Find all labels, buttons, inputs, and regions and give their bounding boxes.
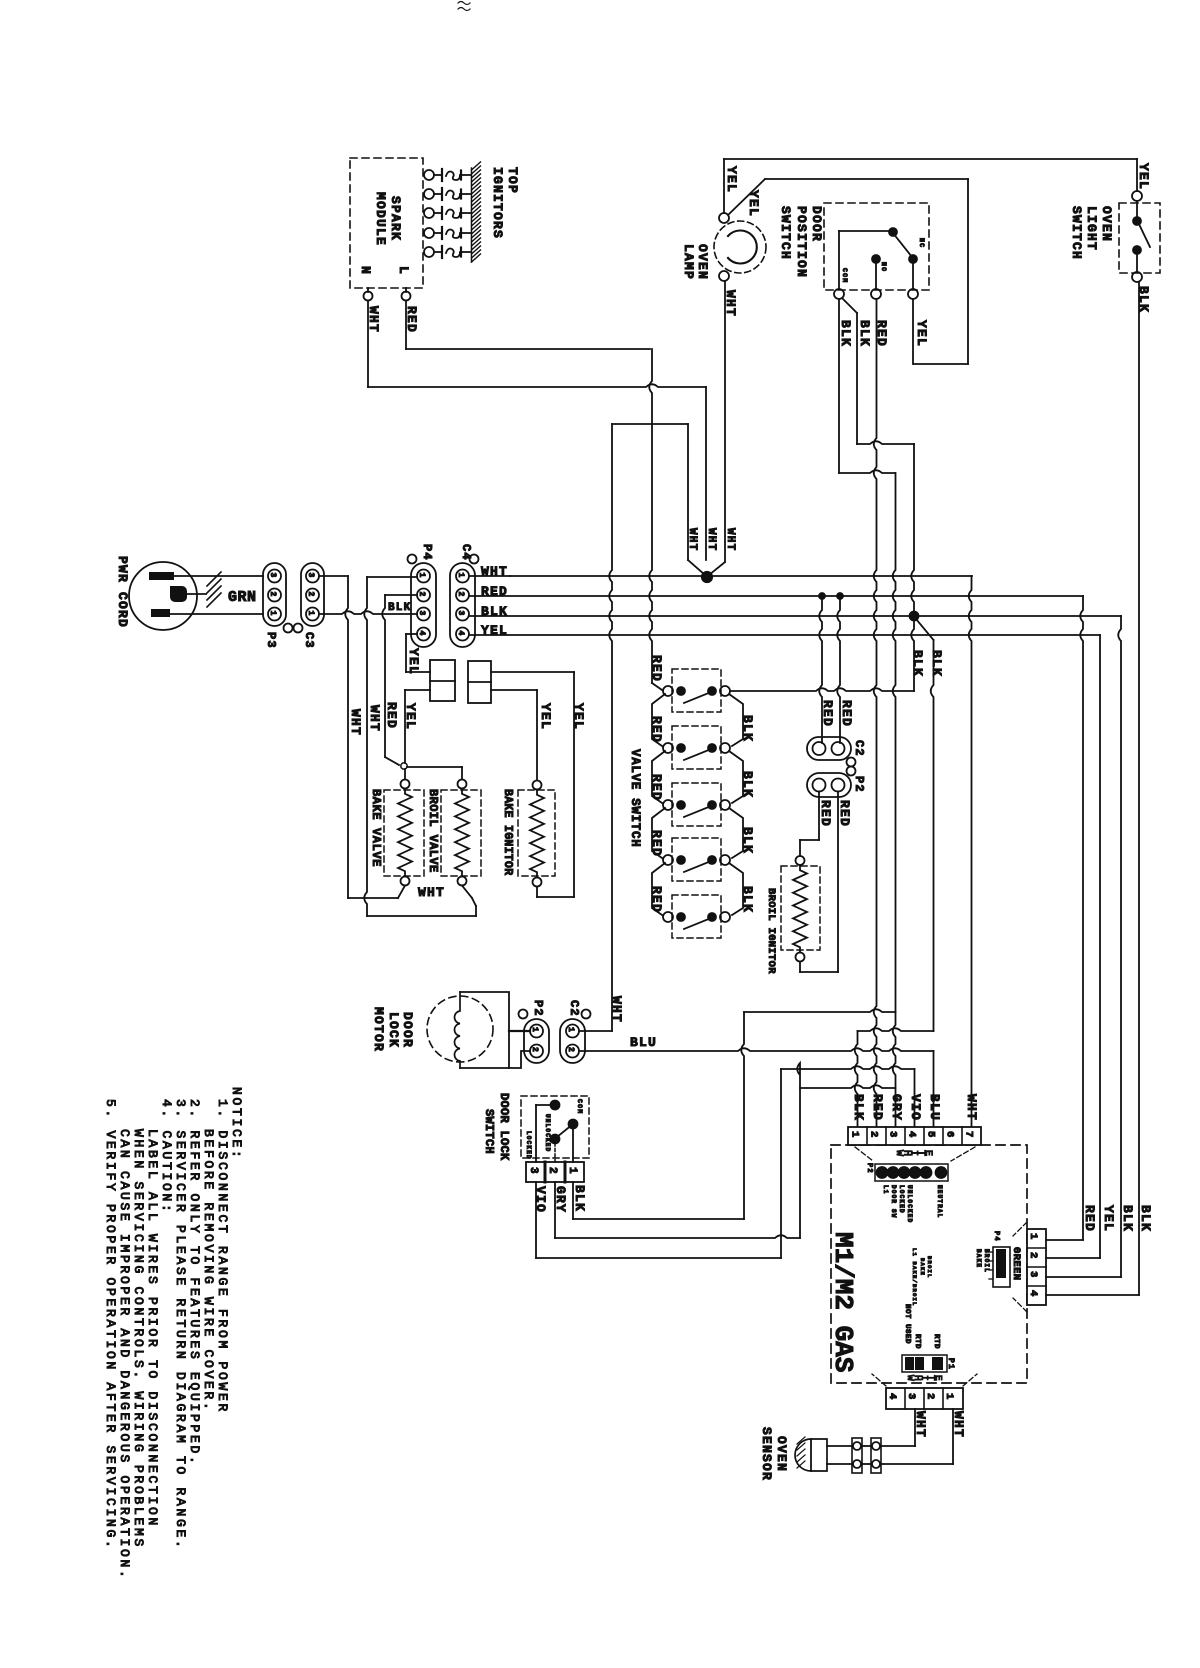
svg-text:BLK: BLK <box>572 1185 587 1212</box>
svg-text:RTD: RTD <box>913 1334 921 1349</box>
svg-text:L1: L1 <box>882 1185 889 1195</box>
label TOP IGNITORS <box>490 167 520 239</box>
valve switch chain left 3 <box>652 808 665 858</box>
svg-text:WHEN SERVICING CONTROLS. WIRIN: WHEN SERVICING CONTROLS. WIRING PROBLEMS <box>131 1129 146 1549</box>
wire node to broil valve <box>407 767 462 779</box>
svg-text:BROIL: BROIL <box>926 1256 933 1279</box>
svg-text:L1 BAKE/BROIL: L1 BAKE/BROIL <box>911 1248 918 1307</box>
svg-text:1: 1 <box>566 1027 575 1033</box>
svg-text:BLU: BLU <box>630 1035 657 1050</box>
valve switch chain right 2 <box>729 751 743 803</box>
terminal block 1 <box>430 660 455 701</box>
valve switch unit 2 <box>663 726 730 769</box>
svg-text:RED: RED <box>839 700 854 727</box>
wire VIO to board pin 4 <box>533 1066 915 1258</box>
spark module terminal N <box>364 288 373 301</box>
svg-text:1. DISCONNECT RANGE FROM POWER: 1. DISCONNECT RANGE FROM POWER <box>215 1099 230 1414</box>
ground GRN <box>187 572 257 607</box>
svg-text:4: 4 <box>417 631 426 637</box>
wire power cord to P3 pin 1 <box>170 613 263 615</box>
svg-text:RED: RED <box>1082 1205 1097 1232</box>
notice text block <box>103 1087 244 1581</box>
svg-text:BEFORE REMOVING WIRE COVER.: BEFORE REMOVING WIRE COVER. <box>201 1129 216 1413</box>
board connector P2 strip pins 1-7 <box>848 1127 981 1145</box>
board P2 leads <box>855 1147 975 1161</box>
svg-text:3: 3 <box>527 1167 539 1175</box>
svg-text:DOOR: DOOR <box>809 206 824 242</box>
svg-text:1: 1 <box>849 1131 861 1139</box>
svg-text:MODULE: MODULE <box>373 192 388 246</box>
oven sensor bulb <box>759 1427 871 1481</box>
svg-text:BAKE: BAKE <box>919 1258 926 1276</box>
svg-text:POSITION: POSITION <box>794 206 809 278</box>
svg-text:3: 3 <box>306 573 315 579</box>
door lock switch <box>482 1093 589 1162</box>
svg-text:7: 7 <box>963 1131 975 1139</box>
svg-text:COM: COM <box>841 268 848 283</box>
wire WHT broil valve return <box>367 886 476 917</box>
svg-text:BLK: BLK <box>1138 1205 1153 1232</box>
svg-text:2: 2 <box>268 592 277 598</box>
door lock motor <box>371 992 509 1068</box>
bus BLK <box>469 616 1121 1277</box>
wire WHT bake valve return <box>348 886 405 899</box>
svg-text:BAKE: BAKE <box>975 1249 982 1268</box>
power cord plug <box>115 556 197 630</box>
wire motor to P2 pin2 <box>509 1051 530 1068</box>
board P1 strip pins 4-1 <box>872 1374 977 1409</box>
svg-text:NOTICE:: NOTICE: <box>229 1087 244 1161</box>
valve switch unit 1 <box>663 669 730 712</box>
svg-text:3: 3 <box>417 611 426 617</box>
svg-text:CAN CAUSE IMPROPER AND DANGERO: CAN CAUSE IMPROPER AND DANGEROUS OPERATI… <box>117 1129 132 1581</box>
svg-text:VIO: VIO <box>908 1094 923 1121</box>
svg-text:UNLOCKED: UNLOCKED <box>906 1185 913 1223</box>
svg-text:C3: C3 <box>302 632 316 649</box>
svg-text:3: 3 <box>1027 1271 1039 1279</box>
svg-text:5: 5 <box>925 1131 937 1139</box>
svg-text:WHT: WHT <box>705 528 717 551</box>
svg-text:YEL: YEL <box>914 320 929 347</box>
svg-text:NEUTRAL: NEUTRAL <box>936 1185 943 1219</box>
svg-text:4. CAUTION:: 4. CAUTION: <box>159 1099 174 1215</box>
wire P4 pin4 YEL to block <box>406 634 430 675</box>
svg-text:TOP: TOP <box>505 167 520 194</box>
wire WHT oven lamp down to neutral junction <box>723 281 738 562</box>
svg-text:SPARK: SPARK <box>388 196 403 241</box>
wire WHT link to door lock motor C2 <box>609 424 688 1031</box>
svg-text:GRY: GRY <box>889 1094 904 1121</box>
svg-text:GREEN: GREEN <box>1010 1247 1022 1281</box>
wire BLK from junction dot down to board pin 1 route <box>910 619 944 1031</box>
junction dot BLK bus <box>910 612 919 621</box>
connector P4 <box>408 544 437 647</box>
svg-text:4: 4 <box>906 1131 918 1139</box>
svg-text:E: E <box>933 1375 944 1381</box>
svg-text:1: 1 <box>530 1027 539 1033</box>
svg-text:YEL: YEL <box>1136 163 1151 190</box>
svg-text:BLK: BLK <box>857 320 872 347</box>
wire motor to P2 pin1 <box>509 1030 530 1032</box>
wire WHT C2 pin1 up to neutral <box>579 996 624 1031</box>
svg-text:GRN: GRN <box>228 589 257 606</box>
wire WHT from spark module N <box>366 301 706 561</box>
valve switch chain right 1 <box>729 694 743 746</box>
svg-text:RED: RED <box>649 886 664 913</box>
wire node to bake valve <box>404 769 406 779</box>
ignitor electrode hatching <box>472 162 481 262</box>
svg-text:OVEN: OVEN <box>1099 206 1114 242</box>
svg-text:SWITCH: SWITCH <box>1069 206 1084 260</box>
svg-text:RED: RED <box>384 702 399 729</box>
svg-text:DOOR SW: DOOR SW <box>890 1185 897 1219</box>
svg-text:2: 2 <box>530 1047 539 1053</box>
svg-text:2: 2 <box>417 592 426 598</box>
spark module terminal L <box>402 288 411 301</box>
wire YEL oven lamp to door position switch NC <box>728 179 968 364</box>
wire BLK from COM vertical to board pin 3 <box>893 473 896 1127</box>
wire P2 broil pin2 to broil ignitor bottom <box>800 792 852 973</box>
wire BLK from COM diagonal branch <box>842 298 914 616</box>
svg-text:LIGHT: LIGHT <box>1084 206 1099 251</box>
svg-text:3: 3 <box>268 573 277 579</box>
svg-text:BLK: BLK <box>740 771 755 798</box>
svg-text:BLK: BLK <box>1120 1205 1135 1232</box>
top ignitors <box>424 169 470 258</box>
wire RED bus taps to broil ignitor connector <box>819 593 854 743</box>
svg-text:DOOR LOCK: DOOR LOCK <box>497 1093 511 1161</box>
svg-text:YEL: YEL <box>724 166 739 193</box>
svg-text:1: 1 <box>306 611 315 617</box>
wire BLK oven light switch down to GREEN connector pin 4 <box>1136 282 1151 1295</box>
wire P4 pin2 BLK/RED drop <box>382 595 417 765</box>
board GREEN connector strip <box>1010 1222 1046 1312</box>
valve switch chain right 4 <box>729 863 743 915</box>
wire BLK from COM straight down <box>838 299 895 473</box>
wire YEL block2 upper to bake ignitor bottom <box>491 672 586 897</box>
svg-text:P4: P4 <box>420 544 434 561</box>
svg-text:2: 2 <box>1027 1252 1039 1260</box>
svg-text:WHT: WHT <box>609 996 624 1023</box>
svg-text:5. VERIFY PROPER OPERATION AFT: 5. VERIFY PROPER OPERATION AFTER SERVICI… <box>103 1099 118 1551</box>
wire GRY to board pin 3 <box>553 1063 896 1238</box>
valve switch chain left 4 <box>652 863 665 915</box>
spark module box <box>350 158 423 288</box>
wire YEL green cell2 <box>1046 1205 1116 1258</box>
svg-text:3: 3 <box>456 611 465 617</box>
svg-text:BLK: BLK <box>851 1094 866 1121</box>
svg-text:BLK: BLK <box>929 650 944 677</box>
connector C2 door lock <box>560 1000 591 1063</box>
svg-text:BLK: BLK <box>740 715 755 742</box>
wire RED green cell1 <box>1046 1205 1097 1240</box>
svg-text:BLK: BLK <box>910 650 925 677</box>
svg-text:LOCK: LOCK <box>386 1012 401 1048</box>
svg-text:LABEL ALL WIRES PRIOR TO DISCO: LABEL ALL WIRES PRIOR TO DISCONNECTION <box>145 1129 160 1528</box>
broil valve <box>426 780 481 886</box>
svg-text:BROIL VALVE: BROIL VALVE <box>426 789 440 873</box>
svg-text:RED: RED <box>820 700 835 727</box>
svg-text:M1/M2 GAS: M1/M2 GAS <box>828 1232 858 1372</box>
svg-text:P2: P2 <box>852 776 866 793</box>
wire WHT board to sensor pin1 <box>881 1409 966 1464</box>
svg-text:VALVE SWITCH: VALVE SWITCH <box>628 749 642 847</box>
svg-text:P4: P4 <box>992 1231 1000 1242</box>
svg-text:RED: RED <box>818 800 833 827</box>
bake ignitor <box>501 781 555 887</box>
svg-text:1: 1 <box>1027 1233 1039 1241</box>
wire YEL oven lamp to top rail <box>724 159 739 213</box>
svg-text:UNLOCKED: UNLOCKED <box>544 1114 551 1152</box>
svg-text:WHT: WHT <box>724 528 736 551</box>
connector C3 <box>294 563 325 649</box>
svg-text:IGNITORS: IGNITORS <box>490 167 505 239</box>
broil ignitor <box>765 856 820 974</box>
M1/M2 GAS control board <box>828 1145 1027 1383</box>
wire P2 broil pin1 to broil ignitor top <box>800 792 833 857</box>
svg-text:6: 6 <box>944 1131 956 1139</box>
svg-text:2. REFER ONLY TO FEATURES EQUI: 2. REFER ONLY TO FEATURES EQUIPPED. <box>187 1099 202 1467</box>
svg-text:LAMP: LAMP <box>681 244 696 280</box>
svg-text:1: 1 <box>943 1393 955 1401</box>
valve switch chain right 3 <box>729 808 743 858</box>
svg-text:NC: NC <box>918 238 925 248</box>
svg-text:BROIL IGNITOR: BROIL IGNITOR <box>765 888 777 974</box>
svg-text:P2: P2 <box>865 1163 873 1174</box>
svg-text:SWITCH: SWITCH <box>482 1109 496 1154</box>
svg-text:L: L <box>396 266 411 275</box>
svg-text:4: 4 <box>886 1393 898 1401</box>
oven light switch <box>1069 203 1160 273</box>
wire BLK dot route to board pin 1 <box>855 1028 934 1127</box>
svg-text:2: 2 <box>306 592 315 598</box>
oven light switch terminals <box>1132 159 1142 282</box>
svg-text:2: 2 <box>456 592 465 598</box>
svg-text:BLK: BLK <box>740 886 755 913</box>
wire RED from NO down to board pin 2 <box>874 299 889 1127</box>
svg-text:3. SERVICER PLEASE RETURN DIAG: 3. SERVICER PLEASE RETURN DIAGRAM TO RAN… <box>173 1099 188 1551</box>
svg-text:LOCKED: LOCKED <box>898 1185 905 1214</box>
svg-text:NO: NO <box>880 262 887 272</box>
svg-text:WHT: WHT <box>964 1094 979 1121</box>
svg-text:1: 1 <box>417 573 426 579</box>
svg-text:1: 1 <box>456 573 465 579</box>
valve switch unit 4 <box>663 838 730 881</box>
svg-text:3: 3 <box>905 1393 917 1401</box>
connector P2 door lock <box>519 1000 550 1063</box>
board P2 pin labels <box>882 1185 943 1223</box>
svg-text:YEL: YEL <box>538 703 553 730</box>
svg-text:4: 4 <box>456 631 465 637</box>
svg-text:C4: C4 <box>459 544 473 561</box>
valve switch chain left 2 <box>652 751 665 803</box>
svg-text:RED: RED <box>649 655 664 682</box>
svg-text:PWR CORD: PWR CORD <box>115 556 130 628</box>
svg-text:2: 2 <box>566 1047 575 1053</box>
svg-text:NOT USED: NOT USED <box>903 1304 911 1344</box>
svg-text:COM: COM <box>576 1099 583 1114</box>
svg-text:RED: RED <box>649 774 664 801</box>
wire WHT board to sensor pin3 <box>881 1409 928 1446</box>
valve switch unit 5 <box>663 895 730 938</box>
svg-text:RED: RED <box>649 716 664 743</box>
svg-text:BLU: BLU <box>927 1094 942 1121</box>
svg-text:WHT: WHT <box>348 709 363 736</box>
svg-text:C2: C2 <box>852 740 866 757</box>
wire C3 pin1 to P4 pin3 <box>319 611 417 614</box>
door position switch terminal COM <box>834 289 844 299</box>
svg-text:P1: P1 <box>946 1358 955 1370</box>
svg-text:BAKE IGNITOR: BAKE IGNITOR <box>501 789 514 875</box>
svg-text:LOCKED: LOCKED <box>525 1131 532 1160</box>
svg-text:RTD: RTD <box>932 1334 940 1349</box>
svg-text:1: 1 <box>566 1167 578 1175</box>
bake valve <box>369 780 424 886</box>
valve switch chain left 1 <box>652 694 665 746</box>
svg-text:P3: P3 <box>264 632 278 649</box>
svg-text:OVEN: OVEN <box>774 1436 789 1472</box>
svg-text:C2: C2 <box>567 1000 581 1017</box>
top rail wire <box>724 158 1137 160</box>
scan noise marks top <box>458 2 470 11</box>
svg-text:BROIL: BROIL <box>983 1249 990 1273</box>
wire RED feed to valve switch <box>649 349 662 690</box>
svg-text:BLK: BLK <box>740 827 755 854</box>
wire power cord to P3 pin 3 <box>174 575 263 577</box>
wire C3 pin3 WHT drop <box>319 576 363 898</box>
wire valve switch unit1 to BLK junction <box>730 616 914 691</box>
svg-text:MOTOR: MOTOR <box>371 1007 386 1052</box>
svg-text:WHT: WHT <box>367 705 382 732</box>
svg-text:DOOR: DOOR <box>400 1012 415 1048</box>
neutral junction dot and convergence <box>686 528 736 582</box>
svg-text:BLK: BLK <box>388 602 411 614</box>
valve switch unit 3 <box>663 783 730 826</box>
svg-text:RED: RED <box>649 830 664 857</box>
svg-text:3: 3 <box>887 1131 899 1139</box>
wire YEL block2 lower to bake ignitor top <box>491 690 553 780</box>
svg-text:RED: RED <box>870 1094 885 1121</box>
svg-text:2: 2 <box>924 1393 936 1401</box>
oven sensor connectors <box>852 1438 881 1473</box>
oven lamp <box>681 213 766 281</box>
svg-text:RED: RED <box>837 800 852 827</box>
svg-text:N: N <box>358 266 373 275</box>
svg-text:E: E <box>922 1150 933 1156</box>
board P4 header <box>911 1231 1010 1307</box>
svg-text:SENSOR: SENSOR <box>759 1427 774 1481</box>
bus WHT <box>469 576 972 1127</box>
door position switch terminal NO <box>871 289 881 299</box>
door position switch terminal NC <box>908 289 918 299</box>
svg-text:BAKE VALVE: BAKE VALVE <box>369 789 383 867</box>
svg-text:P2: P2 <box>531 1000 545 1017</box>
connector C2 broil <box>807 737 866 767</box>
svg-text:SWITCH: SWITCH <box>778 206 793 260</box>
connector P3 <box>263 563 293 649</box>
wire BLK green cell3 <box>1046 1205 1135 1277</box>
svg-text:YEL: YEL <box>1101 1205 1116 1232</box>
door position switch <box>778 203 929 290</box>
wire YEL block1 lower to valves node <box>401 690 430 769</box>
svg-text:2: 2 <box>546 1167 558 1175</box>
svg-text:YEL: YEL <box>406 648 421 675</box>
wire RED from spark module L <box>404 301 650 350</box>
svg-text:2: 2 <box>868 1131 880 1139</box>
connector P2 broil <box>807 767 866 798</box>
terminal block 2 <box>468 661 491 703</box>
svg-text:4: 4 <box>1027 1290 1039 1298</box>
wire BLK green cell4 <box>1046 1205 1153 1295</box>
board P2 header <box>865 1163 948 1181</box>
bus YEL <box>469 635 1100 1258</box>
door lock switch terminal strip <box>526 1162 584 1182</box>
wire BLK to board pin area <box>572 1009 896 1219</box>
wire BLU C2 pin2 to board pin 5 <box>579 1035 934 1127</box>
board P1 header <box>902 1304 955 1372</box>
svg-text:WHT: WHT <box>418 885 445 900</box>
bus RED <box>469 596 1083 1240</box>
wire P4 pin1 WHT drop <box>364 577 417 916</box>
svg-text:1: 1 <box>268 611 277 617</box>
svg-text:BLK: BLK <box>838 320 853 347</box>
connector C4 <box>450 544 479 647</box>
svg-text:OVEN: OVEN <box>695 244 710 280</box>
